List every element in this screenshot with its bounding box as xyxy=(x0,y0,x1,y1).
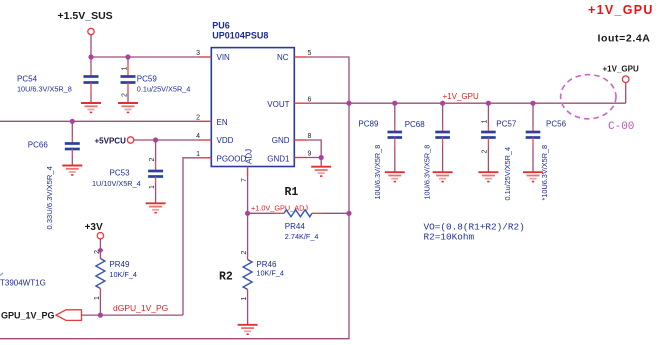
svg-text:2: 2 xyxy=(241,251,248,255)
svg-text:C-00: C-00 xyxy=(608,121,634,133)
power terminal circle +5VPCU xyxy=(127,137,133,143)
wire +5VPCU to VDD pin 4 xyxy=(134,139,200,141)
svg-text:PGOOD: PGOOD xyxy=(217,155,247,164)
svg-text:1: 1 xyxy=(196,151,200,158)
wire EN net from left edge xyxy=(0,120,200,122)
svg-text:10U/6.3V/X5R_8: 10U/6.3V/X5R_8 xyxy=(373,145,382,200)
wire +3V down to PR49 xyxy=(99,239,101,256)
svg-text:PC56: PC56 xyxy=(546,120,567,129)
wire feedback from VOUT rail down to R1 xyxy=(348,103,350,213)
svg-text:10K/F_4: 10K/F_4 xyxy=(109,270,137,279)
svg-text:VIN: VIN xyxy=(217,53,231,62)
resistor R1 (PR44) xyxy=(274,210,323,217)
svg-text:PC66: PC66 xyxy=(28,141,49,150)
svg-text:VOUT: VOUT xyxy=(267,100,289,109)
svg-text:4: 4 xyxy=(196,133,200,140)
svg-text:GND: GND xyxy=(272,136,290,145)
resistor PR49 xyxy=(96,255,105,315)
wire R1 node left segment xyxy=(248,212,275,214)
resistor R2 (PR46) xyxy=(243,213,252,324)
wire ADJ pin down to R1 node xyxy=(247,176,249,214)
junction at PC66 top xyxy=(70,119,75,124)
svg-text:+1.5V_SUS: +1.5V_SUS xyxy=(58,10,113,22)
svg-text:1: 1 xyxy=(122,67,129,71)
junction diamond at PR49 pin 2 xyxy=(97,247,103,253)
svg-text:PR49: PR49 xyxy=(109,260,130,269)
ground under PC56 xyxy=(523,172,543,181)
svg-text:1: 1 xyxy=(94,296,101,300)
power terminal circle +3V xyxy=(97,233,103,239)
wire GND pin 8 routing xyxy=(306,140,321,158)
wire PGOOD to dGPU_1V_PG (left then down) xyxy=(183,158,200,315)
svg-text:10K/F_4: 10K/F_4 xyxy=(256,269,284,278)
highlight dashed ellipse xyxy=(561,75,616,119)
pin 8 stub GND xyxy=(294,139,306,141)
capacitor PC57 xyxy=(481,103,496,172)
svg-text:PC68: PC68 xyxy=(405,120,426,129)
ground under PR46 xyxy=(238,325,258,334)
svg-text:8: 8 xyxy=(308,133,312,140)
power terminal circle +1V_GPU right xyxy=(622,76,629,83)
value label PR49 10K/F_4 xyxy=(109,260,137,279)
wire NC to VOUT rail (right then down) xyxy=(306,57,349,103)
capacitor PC68 xyxy=(435,103,450,172)
svg-text:T3904WT1G: T3904WT1G xyxy=(0,279,46,288)
junction at PC53 top xyxy=(153,137,158,142)
svg-text:PC89: PC89 xyxy=(358,120,379,129)
svg-text:PU6: PU6 xyxy=(212,21,230,31)
svg-text:PC57: PC57 xyxy=(496,120,517,129)
svg-text:2.74K/F_4: 2.74K/F_4 xyxy=(285,232,319,241)
ground under PC66 xyxy=(62,166,82,175)
ground under PC54 xyxy=(81,103,101,112)
svg-text:2: 2 xyxy=(482,150,489,154)
svg-text:0.1u/25V/X5R_4: 0.1u/25V/X5R_4 xyxy=(137,85,191,94)
svg-text:R1: R1 xyxy=(285,186,299,199)
svg-text:9: 9 xyxy=(308,151,312,158)
wire dGPU_1V_PG net xyxy=(82,314,184,316)
svg-text:EN: EN xyxy=(217,118,228,127)
op-amp U1 : regulator IC PU6 body xyxy=(211,48,294,167)
svg-text:1: 1 xyxy=(149,185,156,189)
junction PC68 xyxy=(440,101,445,106)
svg-text:2: 2 xyxy=(196,115,200,122)
wire +1.5V_SUS rail to pin 3 xyxy=(91,56,201,58)
svg-text:10U/6.3V/X5R_8: 10U/6.3V/X5R_8 xyxy=(17,85,72,94)
junction ADJ / R1 / R2 xyxy=(245,211,250,216)
svg-text:UP0104PSU8: UP0104PSU8 xyxy=(212,31,268,41)
capacitor PC59 xyxy=(121,57,136,103)
junction PC57 xyxy=(486,101,491,106)
svg-text:dGPU_1V_PG: dGPU_1V_PG xyxy=(113,303,168,313)
capacitor PC89 xyxy=(388,103,403,172)
svg-text:GPU_1V_PG: GPU_1V_PG xyxy=(1,311,55,321)
svg-text:PC53: PC53 xyxy=(110,169,131,178)
svg-text:VDD: VDD xyxy=(217,136,234,145)
ground under PC68 xyxy=(433,172,453,181)
capacitor PC54 xyxy=(84,57,99,103)
capacitor PC53 xyxy=(148,140,163,203)
junction GND/GND1 xyxy=(319,155,324,160)
wire VOUT rail xyxy=(306,102,626,104)
svg-text:GND1: GND1 xyxy=(267,155,290,164)
svg-text:ADJ: ADJ xyxy=(245,149,254,164)
pin 6 stub VOUT xyxy=(294,102,306,104)
capacitor PC66 xyxy=(65,121,80,165)
junction PR49 / dGPU_1V_PG xyxy=(98,313,103,318)
wire from R1 node down and left along bottom xyxy=(0,213,349,338)
ground under PC89 xyxy=(385,172,405,181)
svg-text:7: 7 xyxy=(241,178,248,182)
svg-text:+5VPCU: +5VPCU xyxy=(95,136,127,145)
svg-text:+1V_GPU: +1V_GPU xyxy=(603,65,639,74)
pin 5 stub NC xyxy=(294,56,306,58)
svg-text:R2=10Kohm: R2=10Kohm xyxy=(424,232,475,243)
value label PR46 10K/F_4 xyxy=(256,260,284,278)
ground under PC59 xyxy=(118,103,138,112)
junction PC56 xyxy=(530,101,535,106)
pin 9 stub GND1 xyxy=(294,157,306,159)
svg-text:+1V_GPU: +1V_GPU xyxy=(443,92,479,101)
svg-text:NC: NC xyxy=(277,53,289,62)
svg-text:0.1u/25V/X5R_4: 0.1u/25V/X5R_4 xyxy=(503,147,512,201)
ground under GND1 xyxy=(311,167,331,176)
off-page connector GPU_1V_PG arrow xyxy=(56,310,82,321)
svg-text:+3V: +3V xyxy=(85,222,103,233)
svg-text:PC54: PC54 xyxy=(17,75,38,84)
value label PC59 xyxy=(137,75,191,94)
wire R1 node right segment xyxy=(323,212,350,214)
svg-text:PR44: PR44 xyxy=(285,222,306,231)
pin 1 stub PGOOD xyxy=(200,157,212,159)
junction NC/VOUT xyxy=(346,101,351,106)
ground under PC53 xyxy=(146,203,166,212)
power terminal circle +1.5V_SUS xyxy=(88,28,94,34)
svg-text:3: 3 xyxy=(196,50,200,57)
value label PC54 xyxy=(17,75,72,94)
svg-text:2: 2 xyxy=(122,93,129,97)
ground under PC57 xyxy=(478,172,498,181)
capacitor PC56 xyxy=(526,103,541,172)
pin 4 stub VDD xyxy=(200,139,212,141)
svg-text:1: 1 xyxy=(482,120,489,124)
svg-text:PC59: PC59 xyxy=(137,75,158,84)
svg-text:2: 2 xyxy=(94,250,101,254)
wire GND1 pin 9 to ground xyxy=(306,158,321,167)
value label PR44 2.74K/F_4 xyxy=(285,222,319,241)
svg-text:1U/10V/X5R_4: 1U/10V/X5R_4 xyxy=(92,179,141,188)
svg-text:1: 1 xyxy=(241,297,248,301)
pin 2 stub EN xyxy=(200,120,212,122)
svg-text:6: 6 xyxy=(308,97,312,104)
pin 7 stub ADJ xyxy=(247,167,249,176)
junction R1 right / feedback xyxy=(346,211,351,216)
svg-text:R2: R2 xyxy=(219,271,233,284)
wire +1V_GPU terminal down to rail xyxy=(625,83,627,104)
svg-text:0.33U/6.3V/X5R_4: 0.33U/6.3V/X5R_4 xyxy=(45,166,54,229)
svg-text:10U/6.3V/X5R_8: 10U/6.3V/X5R_8 xyxy=(423,145,432,200)
transistor remnant mark xyxy=(0,273,3,276)
value label PC53 xyxy=(92,169,141,189)
svg-text:+1V_GPU: +1V_GPU xyxy=(588,3,654,17)
wire from +1.5V_SUS terminal down xyxy=(90,35,92,57)
svg-text:5: 5 xyxy=(308,50,312,57)
junction PC89 xyxy=(392,101,397,106)
svg-text:Iout=2.4A: Iout=2.4A xyxy=(598,32,651,44)
svg-text:+1.0V_GPU_ADJ: +1.0V_GPU_ADJ xyxy=(251,204,308,213)
junction at PC54 top xyxy=(88,54,93,59)
svg-text:2: 2 xyxy=(149,158,156,162)
pin 3 stub VIN xyxy=(200,56,212,58)
junction at PC59 top xyxy=(125,54,130,59)
